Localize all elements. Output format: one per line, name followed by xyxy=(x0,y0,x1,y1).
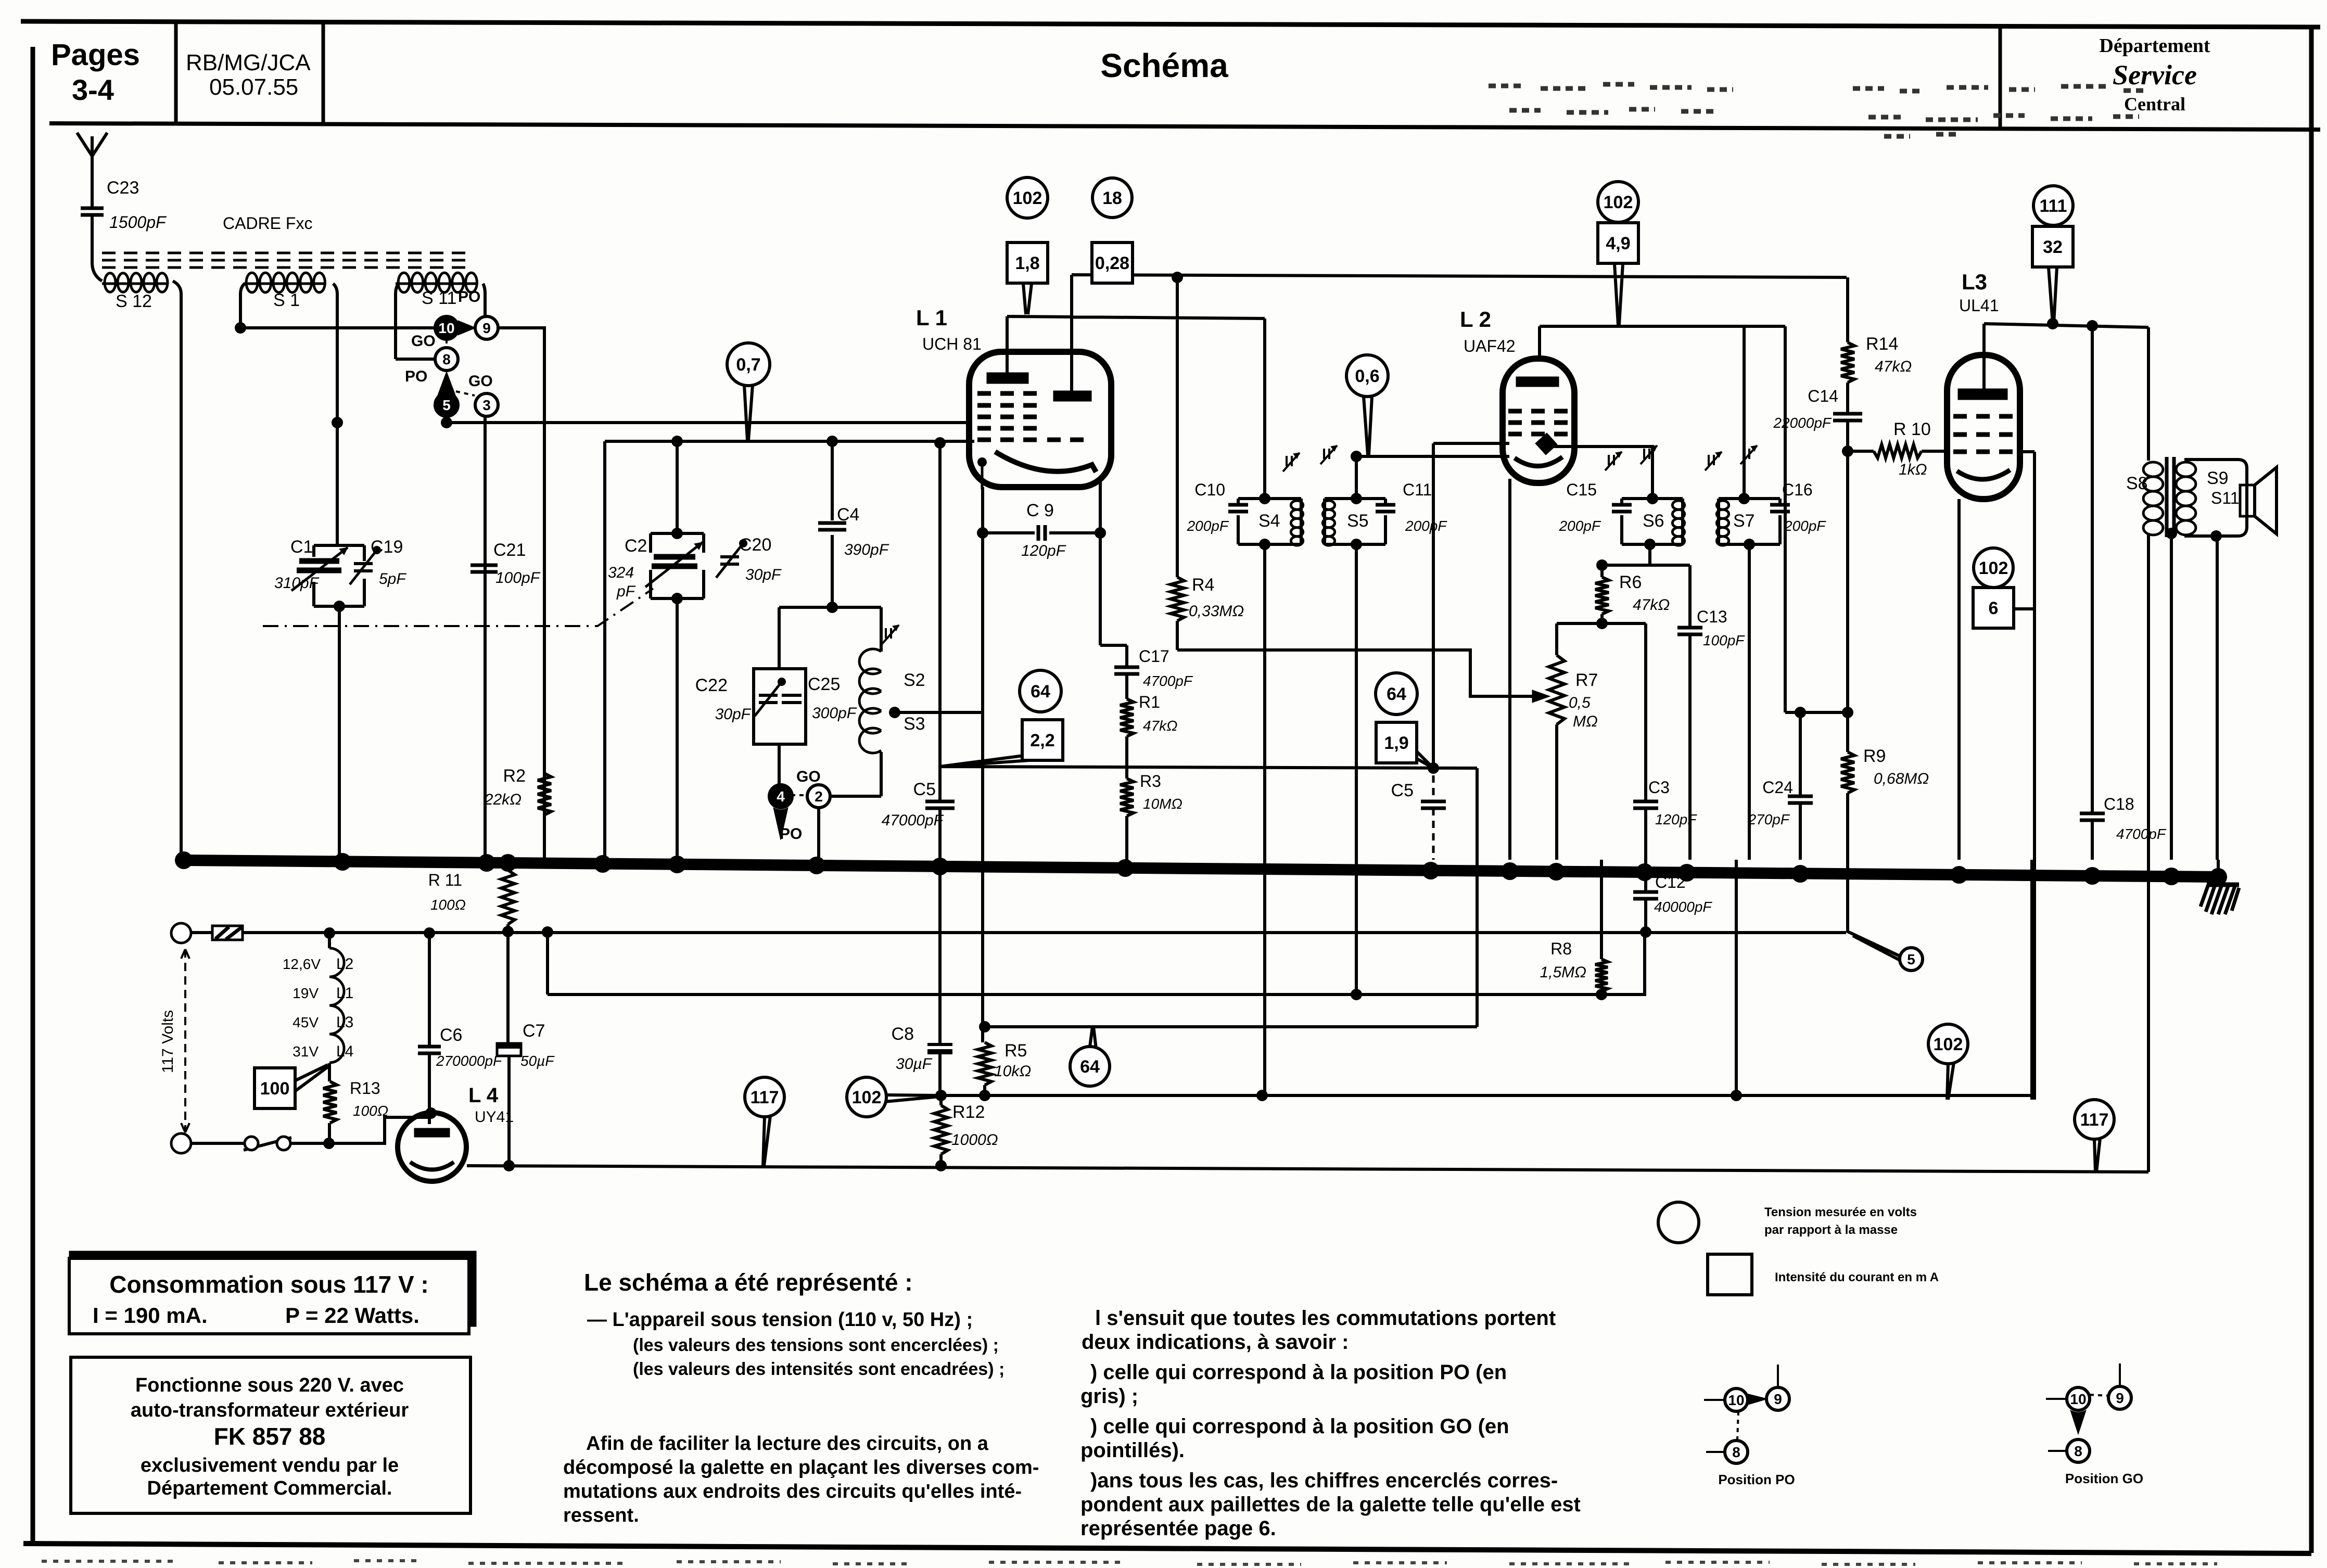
svg-text:111: 111 xyxy=(2040,196,2067,216)
svg-text:3-4: 3-4 xyxy=(72,73,114,106)
svg-text:120pF: 120pF xyxy=(1655,811,1697,827)
svg-text:C14: C14 xyxy=(1808,387,1838,405)
svg-text:12,6V: 12,6V xyxy=(283,956,321,972)
svg-text:30pF: 30pF xyxy=(715,706,752,723)
svg-text:2: 2 xyxy=(815,788,823,805)
svg-text:l s'ensuit que toutes les comm: l s'ensuit que toutes les commutations p… xyxy=(1095,1307,1556,1330)
svg-text:GO: GO xyxy=(796,768,821,785)
svg-text:47kΩ: 47kΩ xyxy=(1143,718,1177,734)
svg-text:C3: C3 xyxy=(1648,778,1670,797)
svg-text:100pF: 100pF xyxy=(1703,632,1745,648)
svg-text:10: 10 xyxy=(438,320,454,336)
svg-text:117 Volts: 117 Volts xyxy=(159,1010,176,1073)
svg-text:Le schéma a été représenté :: Le schéma a été représenté : xyxy=(584,1269,913,1296)
svg-text:FK 857 88: FK 857 88 xyxy=(214,1423,326,1450)
svg-text:pointillés).: pointillés). xyxy=(1080,1439,1185,1462)
svg-text:PO: PO xyxy=(458,288,480,305)
svg-text:Tension mesurée en volts: Tension mesurée en volts xyxy=(1764,1205,1917,1219)
svg-text:C23: C23 xyxy=(107,178,139,198)
svg-text:Afin de faciliter la lecture d: Afin de faciliter la lecture des circuit… xyxy=(586,1433,989,1455)
svg-text:(les valeurs des tensions sont: (les valeurs des tensions sont encerclée… xyxy=(633,1335,999,1355)
svg-text:C24: C24 xyxy=(1762,778,1793,797)
svg-text:PO: PO xyxy=(405,368,427,385)
svg-text:PO: PO xyxy=(780,825,802,843)
svg-text:C22: C22 xyxy=(695,675,728,695)
svg-text:4700pF: 4700pF xyxy=(2116,826,2167,842)
svg-text:Position PO: Position PO xyxy=(1718,1472,1795,1487)
svg-text:R5: R5 xyxy=(1004,1041,1027,1061)
svg-text:19V: 19V xyxy=(293,985,319,1001)
svg-text:8: 8 xyxy=(1732,1444,1740,1460)
svg-text:par rapport à la masse: par rapport à la masse xyxy=(1764,1223,1898,1237)
svg-text:Service: Service xyxy=(2113,59,2197,91)
svg-text:C12: C12 xyxy=(1655,873,1686,891)
svg-text:102: 102 xyxy=(1979,558,2008,578)
svg-text:UAF42: UAF42 xyxy=(1464,337,1516,355)
svg-text:R8: R8 xyxy=(1550,939,1572,958)
svg-text:(les valeurs des intensités so: (les valeurs des intensités sont encadré… xyxy=(633,1359,1004,1379)
svg-text:L3: L3 xyxy=(1962,270,1987,294)
svg-text:4,9: 4,9 xyxy=(1606,234,1630,253)
svg-text:200pF: 200pF xyxy=(1784,518,1826,534)
svg-text:117: 117 xyxy=(751,1088,779,1107)
svg-text:C5: C5 xyxy=(1391,781,1414,800)
svg-text:0,6: 0,6 xyxy=(1355,366,1379,386)
svg-text:18: 18 xyxy=(1102,188,1122,208)
svg-text:R7: R7 xyxy=(1575,670,1598,690)
svg-text:C8: C8 xyxy=(892,1024,914,1044)
svg-text:L 2: L 2 xyxy=(1460,307,1491,332)
svg-text:8: 8 xyxy=(442,351,451,367)
svg-text:MΩ: MΩ xyxy=(1573,713,1598,730)
svg-text:Position GO: Position GO xyxy=(2065,1471,2143,1486)
svg-text:102: 102 xyxy=(1934,1035,1963,1054)
svg-text:C15: C15 xyxy=(1566,480,1597,499)
svg-text:2,2: 2,2 xyxy=(1030,731,1054,750)
svg-text:200pF: 200pF xyxy=(1187,518,1229,534)
svg-text:L3: L3 xyxy=(336,1014,353,1031)
svg-text:S4: S4 xyxy=(1258,511,1280,531)
svg-text:40000pF: 40000pF xyxy=(1654,899,1712,915)
svg-text:C 9: C 9 xyxy=(1026,501,1054,520)
svg-text:120pF: 120pF xyxy=(1021,542,1066,559)
svg-text:Pages: Pages xyxy=(51,38,140,72)
svg-text:décomposé la galette en plaçan: décomposé la galette en plaçant les dive… xyxy=(563,1457,1039,1478)
svg-text:100Ω: 100Ω xyxy=(430,897,466,913)
svg-text:C17: C17 xyxy=(1139,647,1169,666)
svg-text:31V: 31V xyxy=(293,1043,319,1060)
svg-text:5: 5 xyxy=(1907,951,1915,967)
svg-text:deux indications, à savoir :: deux indications, à savoir : xyxy=(1082,1331,1349,1354)
svg-text:ressent.: ressent. xyxy=(563,1505,639,1526)
svg-text:L2: L2 xyxy=(336,955,353,973)
svg-text:représentée page 6.: représentée page 6. xyxy=(1080,1517,1276,1540)
svg-text:R12: R12 xyxy=(952,1102,985,1122)
svg-text:S 12: S 12 xyxy=(116,291,152,311)
svg-text:Schéma: Schéma xyxy=(1100,47,1228,84)
svg-text:30pF: 30pF xyxy=(745,566,782,583)
svg-text:324: 324 xyxy=(608,564,634,581)
svg-text:UCH 81: UCH 81 xyxy=(922,335,982,353)
svg-text:Central: Central xyxy=(2124,94,2185,114)
svg-text:C10: C10 xyxy=(1194,480,1225,499)
svg-text:exclusivement vendu par: exclusivement vendu par le xyxy=(141,1455,399,1476)
svg-text:1,9: 1,9 xyxy=(1384,733,1408,753)
svg-text:Fonctionne sous 220 V. ave: Fonctionne sous 220 V. avec xyxy=(135,1374,404,1396)
svg-text:) celle qui correspond à la po: ) celle qui correspond à la position PO … xyxy=(1090,1361,1507,1384)
svg-text:Département: Département xyxy=(2099,35,2210,57)
svg-text:310pF: 310pF xyxy=(274,575,320,592)
svg-text:Consommation sous 117 V :: Consommation sous 117 V : xyxy=(109,1271,428,1298)
svg-text:S7: S7 xyxy=(1733,511,1755,531)
svg-text:auto-transformateur extérieu: auto-transformateur extérieur xyxy=(131,1399,409,1421)
svg-text:30µF: 30µF xyxy=(896,1055,933,1073)
svg-text:S6: S6 xyxy=(1643,511,1664,531)
svg-text:C19: C19 xyxy=(371,537,403,557)
svg-text:R 11: R 11 xyxy=(428,871,462,889)
svg-text:C5: C5 xyxy=(913,780,936,799)
svg-text:47kΩ: 47kΩ xyxy=(1875,358,1912,375)
svg-text:50µF: 50µF xyxy=(520,1053,555,1069)
svg-text:200pF: 200pF xyxy=(1405,518,1447,534)
svg-text:45V: 45V xyxy=(293,1014,319,1030)
svg-text:100pF: 100pF xyxy=(495,569,541,587)
svg-text:UY41: UY41 xyxy=(475,1108,514,1126)
svg-text:9: 9 xyxy=(1774,1391,1782,1407)
svg-text:C21: C21 xyxy=(493,540,526,560)
svg-text:64: 64 xyxy=(1387,684,1406,704)
svg-text:270pF: 270pF xyxy=(1748,811,1790,827)
svg-text:1,8: 1,8 xyxy=(1015,253,1039,273)
svg-text:10kΩ: 10kΩ xyxy=(994,1063,1031,1080)
svg-text:S2: S2 xyxy=(904,670,925,690)
svg-text:117: 117 xyxy=(2080,1110,2109,1130)
svg-text:100Ω: 100Ω xyxy=(353,1103,388,1119)
svg-text:390pF: 390pF xyxy=(844,541,889,558)
svg-text:pondent aux paillettes de la g: pondent aux paillettes de la galette tel… xyxy=(1080,1493,1581,1516)
svg-text:I = 190 mA.: I = 190 mA. xyxy=(93,1303,208,1328)
svg-text:4700pF: 4700pF xyxy=(1143,673,1193,689)
svg-text:9: 9 xyxy=(2116,1390,2124,1406)
svg-text:102: 102 xyxy=(1013,188,1042,208)
svg-text:102: 102 xyxy=(1604,193,1633,212)
svg-text:05.07.55: 05.07.55 xyxy=(209,74,298,100)
svg-text:S9: S9 xyxy=(2207,468,2229,488)
svg-text:R4: R4 xyxy=(1192,575,1214,595)
svg-text:S11: S11 xyxy=(2211,489,2240,507)
svg-text:C7: C7 xyxy=(523,1021,545,1041)
svg-text:C6: C6 xyxy=(440,1025,462,1045)
svg-text:1kΩ: 1kΩ xyxy=(1899,461,1927,478)
svg-text:gris) ;: gris) ; xyxy=(1080,1385,1138,1408)
svg-text:22000pF: 22000pF xyxy=(1773,415,1832,431)
svg-text:L 1: L 1 xyxy=(916,305,947,330)
svg-text:0,68MΩ: 0,68MΩ xyxy=(1874,770,1929,787)
svg-text:6: 6 xyxy=(1989,598,1999,618)
svg-text:0,28: 0,28 xyxy=(1095,253,1129,273)
svg-text:100: 100 xyxy=(260,1079,290,1099)
svg-text:mutations aux endroits des cir: mutations aux endroits des circuits qu'e… xyxy=(563,1481,1022,1502)
svg-text:C16: C16 xyxy=(1782,480,1813,499)
svg-text:R6: R6 xyxy=(1619,572,1642,592)
svg-text:R2: R2 xyxy=(503,766,526,786)
svg-text:S 11: S 11 xyxy=(422,288,456,308)
svg-text:32: 32 xyxy=(2043,237,2063,257)
svg-text:pF: pF xyxy=(616,583,636,600)
svg-text:Intensité du courant en m A: Intensité du courant en m A xyxy=(1775,1270,1939,1284)
svg-text:5: 5 xyxy=(442,397,451,413)
svg-text:UL41: UL41 xyxy=(1959,296,1999,315)
svg-text:200pF: 200pF xyxy=(1559,518,1601,534)
svg-text:S5: S5 xyxy=(1347,511,1369,531)
svg-text:0,33MΩ: 0,33MΩ xyxy=(1189,603,1244,620)
svg-text:0,7: 0,7 xyxy=(736,355,760,375)
svg-text:4: 4 xyxy=(777,788,785,805)
svg-text:) celle qui correspond à la po: ) celle qui correspond à la position GO … xyxy=(1090,1415,1509,1438)
svg-text:64: 64 xyxy=(1031,682,1050,702)
svg-text:GO: GO xyxy=(411,333,436,350)
svg-text:S8: S8 xyxy=(2126,474,2148,493)
svg-text:1,5MΩ: 1,5MΩ xyxy=(1540,964,1586,981)
svg-text:S 1: S 1 xyxy=(273,290,300,310)
svg-text:)ans tous les cas, les chiffre: )ans tous les cas, les chiffres encerclé… xyxy=(1090,1469,1558,1492)
svg-text:RB/MG/JCA: RB/MG/JCA xyxy=(186,50,311,75)
svg-text:C18: C18 xyxy=(2104,795,2134,813)
svg-text:R1: R1 xyxy=(1139,693,1160,711)
svg-text:0,5: 0,5 xyxy=(1569,694,1591,711)
svg-text:R13: R13 xyxy=(350,1079,380,1098)
svg-text:10: 10 xyxy=(1728,1392,1744,1408)
svg-text:— L'appareil sous tension (110: — L'appareil sous tension (110 v, 50 Hz)… xyxy=(587,1309,973,1331)
svg-text:1000Ω: 1000Ω xyxy=(951,1131,998,1149)
svg-text:L 4: L 4 xyxy=(468,1084,499,1107)
svg-text:270000pF: 270000pF xyxy=(436,1053,503,1069)
svg-text:C13: C13 xyxy=(1697,607,1727,626)
svg-text:C4: C4 xyxy=(837,505,859,525)
svg-text:C1: C1 xyxy=(290,537,313,557)
svg-text:10MΩ: 10MΩ xyxy=(1143,796,1182,812)
svg-text:R14: R14 xyxy=(1866,334,1898,354)
svg-text:10: 10 xyxy=(2070,1391,2086,1407)
svg-text:C11: C11 xyxy=(1403,480,1432,499)
svg-text:L4: L4 xyxy=(336,1043,353,1060)
svg-text:L1: L1 xyxy=(336,985,353,1002)
svg-text:CADRE Fxc: CADRE Fxc xyxy=(223,214,312,233)
svg-text:3: 3 xyxy=(482,397,491,413)
svg-text:Département Commercial.: Département Commercial. xyxy=(147,1477,392,1499)
svg-text:GO: GO xyxy=(468,373,493,390)
svg-text:5pF: 5pF xyxy=(379,570,406,588)
svg-text:64: 64 xyxy=(1080,1057,1100,1077)
svg-text:C25: C25 xyxy=(808,674,840,694)
svg-text:R 10: R 10 xyxy=(1893,419,1931,439)
svg-text:C2: C2 xyxy=(625,536,647,556)
svg-text:9: 9 xyxy=(482,320,491,336)
svg-text:47000pF: 47000pF xyxy=(882,812,944,829)
svg-text:S3: S3 xyxy=(904,714,925,734)
svg-text:R9: R9 xyxy=(1863,746,1886,766)
svg-text:47kΩ: 47kΩ xyxy=(1633,596,1670,614)
svg-text:22kΩ: 22kΩ xyxy=(484,791,522,808)
svg-text:1500pF: 1500pF xyxy=(109,213,167,232)
svg-text:P = 22 Watts.: P = 22 Watts. xyxy=(285,1303,419,1328)
svg-text:C20: C20 xyxy=(739,535,771,555)
svg-text:102: 102 xyxy=(852,1088,882,1107)
svg-text:8: 8 xyxy=(2074,1443,2082,1459)
svg-text:R3: R3 xyxy=(1140,772,1161,791)
svg-text:300pF: 300pF xyxy=(812,705,857,722)
